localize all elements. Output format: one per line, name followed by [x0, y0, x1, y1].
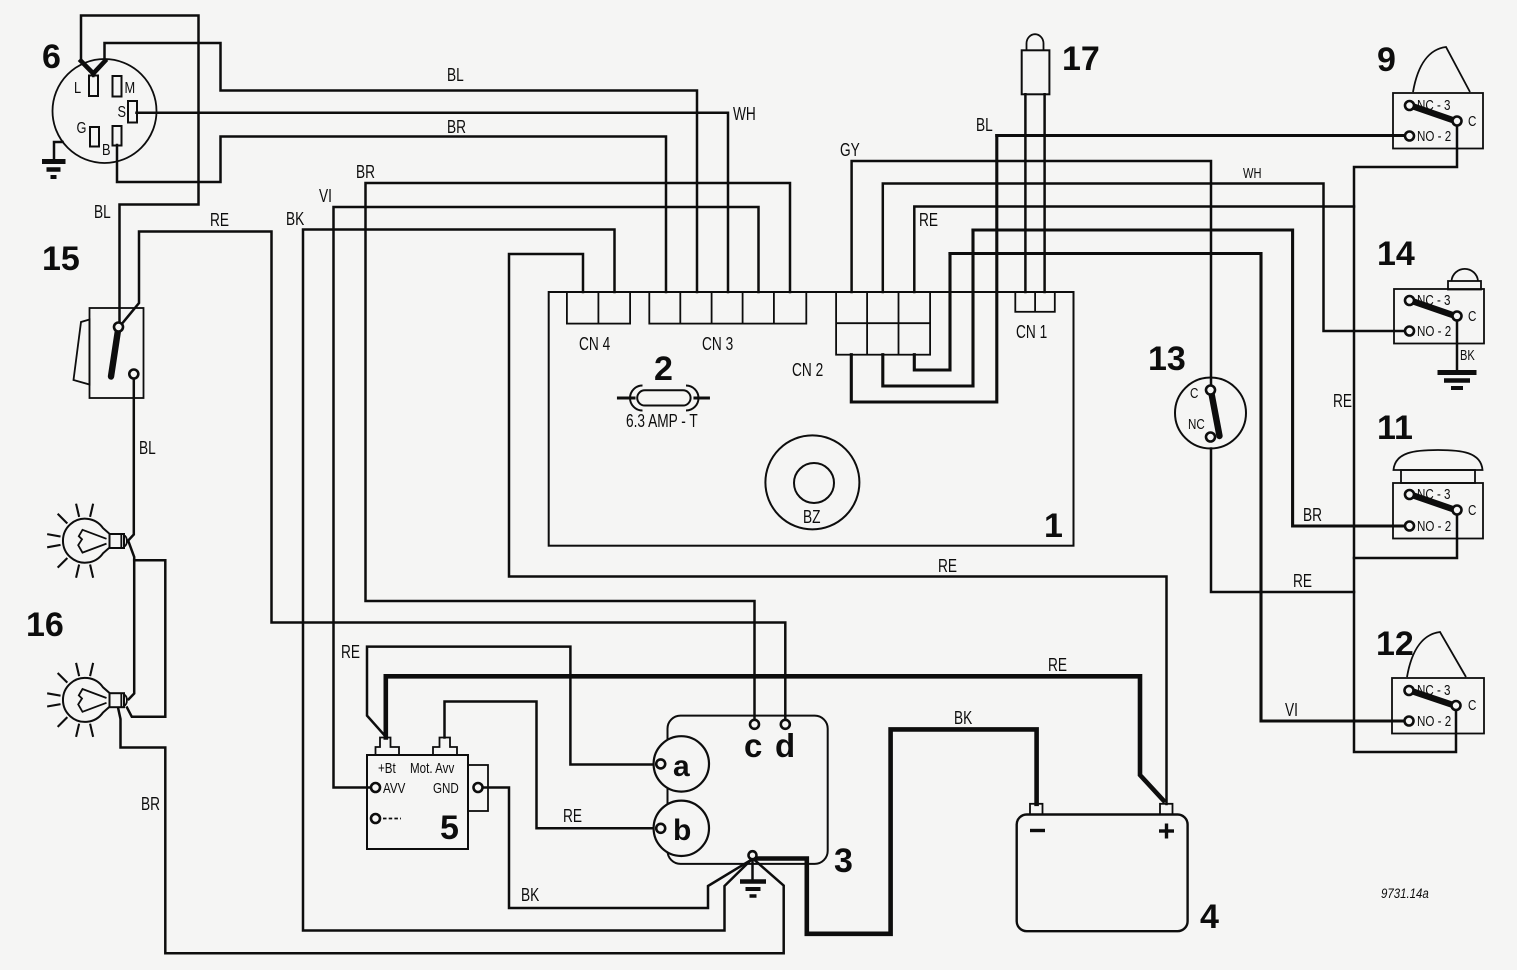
- button 14: [1452, 269, 1479, 281]
- svg-text:+Bt: +Bt: [378, 760, 396, 777]
- svg-text:BK: BK: [286, 209, 304, 229]
- pin L: [89, 76, 98, 97]
- svg-text:9: 9: [1377, 41, 1396, 79]
- wire BR ignition B to CN3 pin 1: [117, 137, 666, 293]
- arrow into pin L: [81, 61, 105, 74]
- svg-text:NO - 2: NO - 2: [1417, 518, 1451, 535]
- rays lamp 2: [48, 664, 93, 736]
- svg-text:RE: RE: [210, 210, 229, 230]
- terminal NO-2: [1405, 327, 1414, 336]
- svg-text:AVV: AVV: [383, 780, 406, 797]
- svg-text:15: 15: [42, 240, 80, 278]
- svg-text:NC: NC: [1188, 416, 1205, 433]
- lever 12: [1407, 632, 1466, 677]
- terminal AVV: [371, 783, 380, 792]
- terminal a: [654, 736, 709, 791]
- terminal NC-3: [1405, 296, 1414, 305]
- wire BL ignition L to switch 15: [81, 16, 199, 324]
- svg-text:NC - 3: NC - 3: [1417, 682, 1451, 699]
- side lug GND: [468, 765, 488, 811]
- connector CN2: [792, 292, 930, 381]
- svg-text:M: M: [125, 80, 136, 98]
- connector CN1: [1015, 292, 1055, 343]
- wire RE relay Mot.Avv to engine b: [445, 702, 657, 829]
- wire BK switch 14 C to ground: [1456, 321, 1459, 371]
- svg-text:NO - 2: NO - 2: [1417, 713, 1451, 730]
- battery minus post: [1030, 804, 1043, 815]
- engine 3: [654, 716, 828, 864]
- battery plus post: [1160, 804, 1173, 815]
- svg-text:RE: RE: [938, 556, 957, 576]
- wire WH CN2 pin 2 to switch 14 NO-2: [883, 184, 1405, 332]
- battery 4: [1017, 804, 1188, 931]
- pin B: [113, 126, 122, 146]
- svg-text:NC - 3: NC - 3: [1417, 97, 1451, 114]
- terminal c: [750, 720, 759, 729]
- Mot.Avv terminal post: [433, 738, 457, 756]
- fuse 2: [619, 386, 709, 411]
- svg-text:16: 16: [26, 606, 64, 644]
- wire RE CN4 pin 1 to battery plus: [509, 254, 1167, 804]
- svg-text:B: B: [102, 142, 111, 160]
- svg-text:4: 4: [1200, 898, 1219, 936]
- rocker flap: [74, 320, 90, 385]
- ground symbol engine: [740, 860, 766, 897]
- mushroom button 11: [1394, 450, 1483, 470]
- terminal NC-3: [1405, 686, 1414, 695]
- wire BR lamp 2 to engine ground: [118, 708, 784, 954]
- svg-text:a: a: [673, 750, 690, 783]
- wire RE switch 11 C to bus: [1354, 515, 1457, 559]
- +Bt terminal post: [376, 738, 400, 756]
- wire BL switch 15 to lamp 1: [129, 379, 134, 541]
- terminal NC-3: [1405, 101, 1414, 110]
- svg-text:RE: RE: [563, 806, 582, 826]
- ignition switch 6: [53, 59, 157, 163]
- wire GY CN2 pin 1 to switch 13 C: [852, 161, 1211, 386]
- svg-text:NC - 3: NC - 3: [1417, 486, 1451, 503]
- svg-text:C: C: [1468, 308, 1476, 325]
- wire plug 17 leg 1 to CN1: [1024, 94, 1027, 292]
- blade 12: [1412, 691, 1454, 705]
- terminal C: [1453, 506, 1462, 515]
- svg-text:2: 2: [654, 350, 673, 388]
- svg-text:WH: WH: [733, 104, 756, 124]
- svg-text:GND: GND: [433, 780, 459, 797]
- svg-text:VI: VI: [319, 186, 332, 206]
- svg-text:b: b: [673, 814, 691, 847]
- ground symbol ignition: [42, 142, 66, 177]
- terminal NC: [1206, 433, 1215, 442]
- svg-text:CN 3: CN 3: [702, 334, 733, 354]
- svg-text:BR: BR: [356, 162, 375, 182]
- wire BR CN3 pin 5 to engine c: [366, 183, 791, 720]
- svg-text:6.3 AMP - T: 6.3 AMP - T: [626, 411, 698, 431]
- svg-text:BL: BL: [139, 438, 156, 458]
- svg-text:NO - 2: NO - 2: [1417, 323, 1451, 340]
- svg-text:BK: BK: [521, 885, 539, 905]
- terminal NO-2: [1405, 522, 1414, 531]
- wire BL ignition L to CN3 pin 2: [105, 43, 698, 292]
- switch 11: [1393, 450, 1483, 539]
- svg-text:BK: BK: [1460, 346, 1475, 363]
- terminal d: [781, 720, 790, 729]
- svg-text:GY: GY: [840, 140, 860, 160]
- svg-text:L: L: [74, 80, 81, 98]
- terminal spare: [371, 814, 380, 823]
- wire BR CN2 bottom pin 2 to switch 11 NO-2: [883, 230, 973, 386]
- wire RE switch 15 to engine d: [121, 232, 786, 721]
- wire VI CN2 bottom pin 3 to switch 12 NO-2: [914, 254, 950, 371]
- pin M: [113, 76, 122, 97]
- terminal GND: [474, 783, 483, 792]
- svg-text:5: 5: [440, 809, 459, 847]
- terminal top: [114, 323, 123, 332]
- switch 12: [1392, 632, 1484, 734]
- blade 11: [1412, 495, 1454, 510]
- svg-text:WH: WH: [1243, 164, 1261, 181]
- pin G: [90, 127, 99, 147]
- terminal b: [654, 801, 709, 856]
- terminal C: [1453, 117, 1462, 126]
- wire WH ignition S to CN3 pin 3: [137, 113, 729, 292]
- svg-text:BR: BR: [447, 117, 466, 137]
- blade 14: [1412, 301, 1454, 316]
- lamp 16 lower: [48, 664, 127, 736]
- svg-text:6: 6: [42, 38, 61, 76]
- terminal NC-3: [1405, 490, 1414, 499]
- svg-text:CN 4: CN 4: [579, 334, 610, 354]
- svg-text:13: 13: [1148, 340, 1186, 378]
- terminal bottom: [129, 370, 138, 379]
- blade 13: [1211, 391, 1220, 436]
- terminal NO-2: [1405, 132, 1414, 141]
- svg-text:CN 1: CN 1: [1016, 322, 1047, 342]
- connector CN3: [649, 292, 806, 355]
- svg-text:BL: BL: [94, 202, 111, 222]
- svg-text:14: 14: [1377, 235, 1415, 273]
- ground terminal engine: [749, 851, 757, 859]
- ground symbol switch 14: [1438, 373, 1477, 389]
- control unit box 1: [549, 292, 1074, 546]
- wire RE switch 13 NC to bus: [1211, 449, 1354, 593]
- terminal C: [1206, 386, 1215, 395]
- svg-text:12: 12: [1376, 625, 1414, 663]
- lamp 16 upper: [48, 505, 127, 577]
- wire BL CN2 bottom pin 1 to switch 9 NO-2: [851, 136, 997, 403]
- svg-text:RE: RE: [919, 210, 938, 230]
- svg-text:BR: BR: [1303, 505, 1322, 525]
- svg-text:BL: BL: [447, 65, 464, 85]
- svg-text:S: S: [118, 104, 127, 122]
- svg-text:1: 1: [1044, 507, 1063, 545]
- svg-text:RE: RE: [1293, 571, 1312, 591]
- wire RE relay +Bt to engine a: [367, 647, 656, 765]
- blade 15: [111, 327, 119, 377]
- terminal NO-2: [1405, 717, 1414, 726]
- wire RE bus switch 9 C down: [1354, 126, 1457, 753]
- wire RE CN2 pin 3 to RE bus: [914, 207, 1354, 293]
- terminal C: [1452, 701, 1461, 710]
- relay 5: [367, 738, 488, 850]
- svg-text:C: C: [1468, 697, 1476, 714]
- wire RE thick relay +Bt to battery plus: [386, 676, 1164, 800]
- svg-text:3: 3: [834, 842, 853, 880]
- wire plug 17 leg 2 to CN1: [1043, 94, 1046, 292]
- svg-text:CN 2: CN 2: [792, 360, 823, 380]
- switch 15: [74, 308, 144, 398]
- svg-text:11: 11: [1377, 409, 1413, 447]
- wire BK thick engine ground to battery minus: [755, 729, 1037, 933]
- svg-text:G: G: [77, 120, 87, 138]
- svg-text:VI: VI: [1285, 700, 1298, 720]
- svg-text:C: C: [1468, 502, 1476, 519]
- connector CN4: [567, 292, 630, 355]
- svg-text:RE: RE: [1333, 391, 1352, 411]
- svg-text:BK: BK: [954, 708, 972, 728]
- wire BK CN4 pin 2 to engine ground: [303, 230, 751, 931]
- wire lamp 1 to lamp 2 lower loop: [127, 560, 165, 717]
- svg-text:17: 17: [1062, 40, 1100, 78]
- switch 13: [1175, 378, 1246, 449]
- terminal C: [1453, 312, 1462, 321]
- switch 9: [1393, 47, 1483, 149]
- rays lamp 1: [48, 505, 93, 577]
- pin S: [128, 101, 137, 123]
- svg-text:BR: BR: [141, 794, 160, 814]
- plug 17: [1022, 34, 1050, 94]
- wire VI CN3 pin 4 to relay AVV: [334, 207, 759, 788]
- wire lamp 1 to lamp 2: [129, 542, 135, 699]
- svg-text:Mot. Avv: Mot. Avv: [410, 760, 455, 777]
- svg-text:d: d: [775, 727, 795, 764]
- svg-text:c: c: [744, 727, 762, 764]
- switch 14: [1394, 269, 1484, 344]
- svg-text:BL: BL: [976, 115, 993, 135]
- svg-text:9731.14a: 9731.14a: [1381, 886, 1429, 901]
- svg-text:RE: RE: [1048, 655, 1067, 675]
- svg-text:NO - 2: NO - 2: [1417, 128, 1451, 145]
- blade 9: [1412, 106, 1454, 121]
- svg-text:C: C: [1190, 385, 1198, 402]
- wire BK relay GND to engine ground: [483, 788, 751, 909]
- buzzer BZ: [765, 435, 859, 529]
- svg-text:NC - 3: NC - 3: [1417, 292, 1451, 309]
- svg-text:C: C: [1468, 113, 1476, 130]
- svg-text:BZ: BZ: [803, 507, 821, 527]
- lever 9: [1413, 47, 1470, 92]
- svg-text:RE: RE: [341, 642, 360, 662]
